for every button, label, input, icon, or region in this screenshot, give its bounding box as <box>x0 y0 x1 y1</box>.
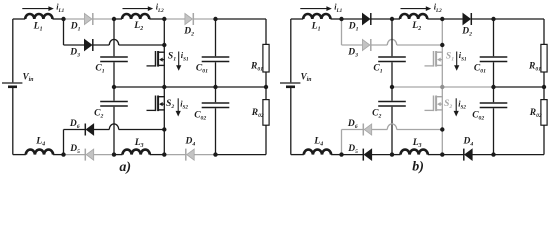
wire b: L2 to node C <box>427 18 442 20</box>
wire b: mid rail left part <box>392 86 494 88</box>
node H (a): D4/C02/output junction <box>213 152 217 156</box>
diode D3 (b) <box>362 39 370 50</box>
diode D6 (a) <box>86 124 94 135</box>
node A (a): L1/D1/D3 junction <box>61 17 65 21</box>
wire b: D3 cathode toward hop <box>371 44 388 46</box>
inductor L1 (a) <box>25 14 52 19</box>
wire b: left column lower (Vin- to bottom rail) <box>290 88 292 155</box>
current arrow i_L1 (b) <box>300 8 327 10</box>
wire a: mid rail through S2 to D6 rail <box>163 87 165 130</box>
node F (a): D6 rail / S2 source junction <box>162 127 166 131</box>
inductor L4 (b) <box>304 150 331 155</box>
wire b: mid rail right part <box>494 86 545 88</box>
current arrow i_S2 (b) <box>455 98 457 111</box>
wire a: D6 rail hop over C2 column <box>109 124 118 130</box>
node G (b): L3/D4/S2 junction <box>440 152 444 156</box>
wire a: C2 bottom node to L3 <box>114 154 123 156</box>
diode D5 (a) <box>86 149 94 160</box>
node (b): D5/C2/L3 junction <box>390 152 394 156</box>
node C (a): L2/D2/S1 junction <box>162 17 166 21</box>
wire a: mid rail left part <box>114 86 216 88</box>
diode D4 (b) <box>465 149 473 160</box>
node (b): S1/S2 mid junction <box>440 85 444 89</box>
wire a: node D down to C01 <box>215 19 217 56</box>
current arrow i_L2 (b) <box>401 8 427 10</box>
wire a: D6 cathode segment <box>64 129 86 131</box>
wire b: C02 to bottom rail <box>493 108 495 154</box>
wire b: D6 cathode segment <box>342 129 364 131</box>
wire a: node E to D5 <box>64 154 86 156</box>
wire a: node B down to C1 <box>113 19 115 56</box>
wire b: node A to D1 anode <box>342 18 363 20</box>
current arrow i_S1 (a) <box>178 52 180 66</box>
wire b: C1 to mid rail <box>391 62 393 87</box>
diode D1 (a) <box>84 13 92 24</box>
node B (a): D1/L2/C1 junction <box>112 17 116 21</box>
svg-text:b): b) <box>412 159 424 174</box>
node G (a): L3/D4/S2 junction <box>162 152 166 156</box>
wire b: node H to output corner <box>494 154 545 156</box>
wire b: D2 cathode to node D <box>471 18 493 20</box>
inductor L2 (b) <box>400 14 427 19</box>
node E (a): L4/D5/D6 junction <box>61 152 65 156</box>
node (a): D5/C2/L3 junction <box>112 152 116 156</box>
node (a): S1/S2 mid junction <box>162 85 166 89</box>
inductor L1 (b) <box>303 14 330 19</box>
diode D2 (a) <box>185 13 193 24</box>
wire b: D3 rail right segment to S column <box>397 44 443 46</box>
wire b: D4 to node H <box>472 154 493 156</box>
wire b: D6 anode toward hop <box>372 129 388 131</box>
wire a: bottom rail into L4 <box>13 154 26 156</box>
capacitor C01 (a) <box>202 56 230 58</box>
wire a: R01 to mid rail <box>265 72 267 87</box>
node A (b): L1/D1/D3 junction <box>339 17 343 21</box>
wire b: D1 cathode to node B <box>371 18 392 20</box>
node (a): C01/C02 mid junction <box>213 85 217 89</box>
wire b: top corner down to R01 <box>543 19 545 44</box>
wire a: D2 cathode to node D <box>193 18 215 20</box>
current arrow i_S2 (a) <box>177 98 179 111</box>
voltage source Vin (b) <box>280 82 300 84</box>
voltage source Vin (a) <box>2 82 22 84</box>
wire b: D3 junction through S1 to mid rail <box>441 45 443 87</box>
wire a: node C to D2 anode <box>164 18 185 20</box>
diode D2 (b) <box>463 13 471 24</box>
wire a: D6 junction down to bottom rail <box>163 130 165 155</box>
wire b: node B down to C1 <box>391 19 393 56</box>
wire b: D3 rail left segment <box>342 44 363 46</box>
wire b: D5 to C2 bottom node <box>372 154 392 156</box>
wire b: L4 to node E <box>331 154 341 156</box>
wire b: node A down to D3 rail <box>341 19 343 45</box>
node D (b): D2/C01/output junction <box>491 17 495 21</box>
diode D6 (b) <box>364 124 372 135</box>
node D (a): D2/C01/output junction <box>213 17 217 21</box>
wire a: D3 rail left segment <box>64 44 85 46</box>
wire a: L3 to node G <box>150 154 165 156</box>
inductor L4 (a) <box>26 150 53 155</box>
wire b: node D down to C01 <box>493 19 495 56</box>
wire a: C02 to bottom rail <box>215 108 217 154</box>
wire b: L1 to node A <box>331 18 342 20</box>
wire b: mid rail through S2 to D6 rail <box>441 87 443 130</box>
wire b: top rail into L1 <box>291 18 303 20</box>
capacitor C01 (b) <box>480 56 508 58</box>
wire a: C1 to mid rail <box>113 62 115 87</box>
wire b: D6 rail hop over C2 column <box>387 124 396 130</box>
diode D4 (a) <box>187 149 195 160</box>
transistor S2 (b) <box>425 96 443 112</box>
node C (b): L2/D2/S1 junction <box>440 17 444 21</box>
resistor R01 (b) <box>541 44 547 72</box>
wire b: mid rail down to C02 <box>493 87 495 102</box>
wire b: node E to D5 <box>342 154 364 156</box>
wire a: node E up to D6 rail <box>63 130 65 155</box>
capacitor C02 (a) <box>202 102 230 104</box>
capacitor C02 (b) <box>480 102 508 104</box>
transistor S1 (b) <box>425 51 443 67</box>
wire b: node C down to D3 junction <box>441 19 443 45</box>
wire a: node C down to D3 junction <box>163 19 165 45</box>
wire b: node B to L2 <box>392 18 400 20</box>
node (b): C01/C02 mid junction <box>491 85 495 89</box>
diode D5 (b) <box>364 149 372 160</box>
wire a: node G to D4 <box>164 154 185 156</box>
node (a): R01/R02 mid junction <box>264 85 268 89</box>
wire a: node A down to D3 rail <box>63 19 65 45</box>
wire a: left column upper (Vin+ to top rail) <box>12 19 14 82</box>
node F (b): D6 rail / S2 source junction <box>440 127 444 131</box>
inductor L3 (b) <box>401 150 428 155</box>
wire a: mid rail right part <box>216 86 267 88</box>
wire a: D3 cathode toward hop <box>93 44 110 46</box>
wire a: node B to L2 <box>114 18 122 20</box>
wire a: D1 cathode to node B <box>93 18 114 20</box>
capacitor C2 (a) <box>100 101 128 103</box>
wire b: C2 bottom node to L3 <box>392 154 401 156</box>
capacitor C2 (b) <box>378 101 406 103</box>
wire a: left column lower (Vin- to bottom rail) <box>12 88 14 155</box>
current arrow i_L1 (a) <box>22 8 49 10</box>
wire b: C2 to bottom rail <box>391 107 393 155</box>
node (b): C1/C2 mid junction <box>390 85 394 89</box>
wire b: D3 rail hop over C1 column <box>387 39 396 45</box>
wire a: mid rail down to C02 <box>215 87 217 102</box>
wire a: D3 rail right segment to S column <box>119 44 165 46</box>
wire a: L2 to node C <box>149 18 164 20</box>
capacitor C1 (a) <box>100 56 128 58</box>
wire a: mid rail down to R02 <box>265 87 267 100</box>
inductor L3 (a) <box>123 150 150 155</box>
inductor L2 (a) <box>122 14 149 19</box>
wire a: node A to D1 anode <box>64 18 85 20</box>
wire a: D4 to node H <box>194 154 215 156</box>
wire a: L1 to node A <box>53 18 64 20</box>
svg-text:a): a) <box>119 160 131 175</box>
wire b: R01 to mid rail <box>543 72 545 87</box>
node E (b): L4/D5/D6 junction <box>339 152 343 156</box>
wire b: node C to D2 anode <box>442 18 463 20</box>
wire b: node D to output corner <box>494 18 545 20</box>
diode D1 (b) <box>362 13 370 24</box>
wire a: D6 anode toward hop <box>94 129 110 131</box>
node (b): D3 rail / S1 drain junction <box>440 43 444 47</box>
wire a: top rail into L1 <box>13 18 25 20</box>
wire a: node D to output corner <box>216 18 267 20</box>
wire a: L4 to node E <box>53 154 63 156</box>
wire a: D3 rail hop over C1 column <box>109 39 118 45</box>
wire b: C01 to mid rail <box>493 62 495 87</box>
node (b): R01/R02 mid junction <box>542 85 546 89</box>
wire b: left column upper (Vin+ to top rail) <box>290 19 292 82</box>
node B (b): D1/L2/C1 junction <box>390 17 394 21</box>
wire a: top corner down to R01 <box>265 19 267 44</box>
diode D3 (a) <box>84 39 92 50</box>
node H (b): D4/C02/output junction <box>491 152 495 156</box>
wire a: C2 to bottom rail <box>113 107 115 155</box>
wire b: D6 junction down to bottom rail <box>441 130 443 155</box>
wire b: mid rail down to R02 <box>543 87 545 100</box>
wire b: mid rail down to C2 <box>391 87 393 101</box>
transistor S2 (a) <box>147 96 165 112</box>
node (a): D3 rail / S1 drain junction <box>162 43 166 47</box>
current arrow i_L2 (a) <box>123 8 149 10</box>
wire a: node H to output corner <box>216 154 267 156</box>
wire b: node E up to D6 rail <box>341 130 343 155</box>
wire a: D6 rail right segment <box>119 129 165 131</box>
wire a: D5 to C2 bottom node <box>94 154 114 156</box>
resistor R02 (a) <box>263 100 269 126</box>
wire b: L3 to node G <box>428 154 443 156</box>
wire b: R02 to bottom rail <box>543 125 545 154</box>
wire a: R02 to bottom rail <box>265 125 267 154</box>
wire a: D3 junction through S1 to mid rail <box>163 45 165 87</box>
current arrow i_S1 (b) <box>456 52 458 66</box>
wire b: bottom rail into L4 <box>291 154 304 156</box>
wire a: C01 to mid rail <box>215 62 217 87</box>
wire a: mid rail down to C2 <box>113 87 115 101</box>
wire b: D6 rail right segment <box>397 129 443 131</box>
node (a): C1/C2 mid junction <box>112 85 116 89</box>
capacitor C1 (b) <box>378 56 406 58</box>
transistor S1 (a) <box>147 51 165 67</box>
resistor R01 (a) <box>263 44 269 72</box>
resistor R02 (b) <box>541 100 547 126</box>
wire b: node G to D4 <box>442 154 463 156</box>
